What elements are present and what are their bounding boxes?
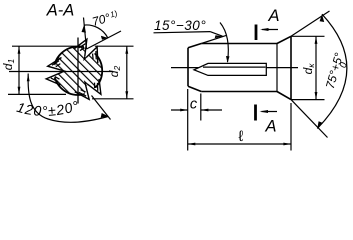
label 75 deg plus 5 minus 0 [323,51,350,90]
extension line top shared d1/d2 [12,45,134,47]
svg-text:15°−30°: 15°−30° [154,18,206,33]
dimension line d2 [126,46,128,99]
svg-text:d1: d1 [1,59,16,71]
angle 70 deg dimension arc [84,25,108,38]
groove outline on side view [194,63,266,75]
extension line d2 bottom [92,98,134,100]
head cone bottom edge [277,92,291,100]
svg-text:A: A [267,7,279,25]
dimension line l [188,143,291,145]
dimension line c [171,109,188,111]
svg-text:A-A: A-A [46,2,75,20]
label 70 deg footnote 1 [91,8,120,29]
pin left end face [187,48,189,86]
section plane mark top [255,25,258,41]
chamfer edge extension [201,35,227,43]
extension line l right [290,103,292,151]
svg-text:c: c [190,97,198,113]
groove notch bottom-right (300 deg) [73,75,106,105]
svg-text:ℓ: ℓ [239,128,244,145]
head cone top edge [277,36,291,43]
head end face [290,36,292,99]
extension line dk bottom [291,99,325,101]
groove notch left (180 deg) [46,58,65,86]
angle 70 deg extension legs [84,18,87,50]
svg-text:120°±20°: 120°±20° [15,97,81,119]
svg-text:A: A [264,118,276,136]
pin body top edge [201,43,277,45]
pin cross-section circle with hatching [54,47,102,95]
label dk [301,63,316,75]
head junction line [276,44,278,92]
centre line vertical of section [77,38,79,104]
groove axis extension bottom-right [92,96,111,120]
chamfer edge bottom [188,86,201,91]
extension line dk top [291,35,325,37]
dimension line d1 [18,46,20,94]
groove notch top (60 deg) [72,36,105,66]
extension line c right [200,94,202,121]
dimension line dk [315,36,317,99]
svg-text:dк: dк [301,63,316,75]
label d2 [107,66,122,78]
extension line c left / l left [187,89,189,151]
extension line d1 bottom [8,93,66,95]
svg-text:d2: d2 [107,66,122,78]
svg-text:75°+5°: 75°+5° [323,51,346,90]
section plane mark bottom [254,105,257,121]
leader arc to groove run-out [220,23,228,63]
centre line horizontal of section [9,71,113,73]
cone edge extension top [291,11,330,36]
svg-text:70°1): 70°1) [91,8,120,29]
cone edge extension bottom [291,100,328,138]
chamfer edge top [188,44,201,48]
label d1 [1,59,16,71]
pin body bottom edge [201,91,277,93]
centre line of pin side view [171,67,298,69]
angle 120 deg dimension arc [28,74,108,123]
angle 75 deg dimension arc [317,14,347,128]
